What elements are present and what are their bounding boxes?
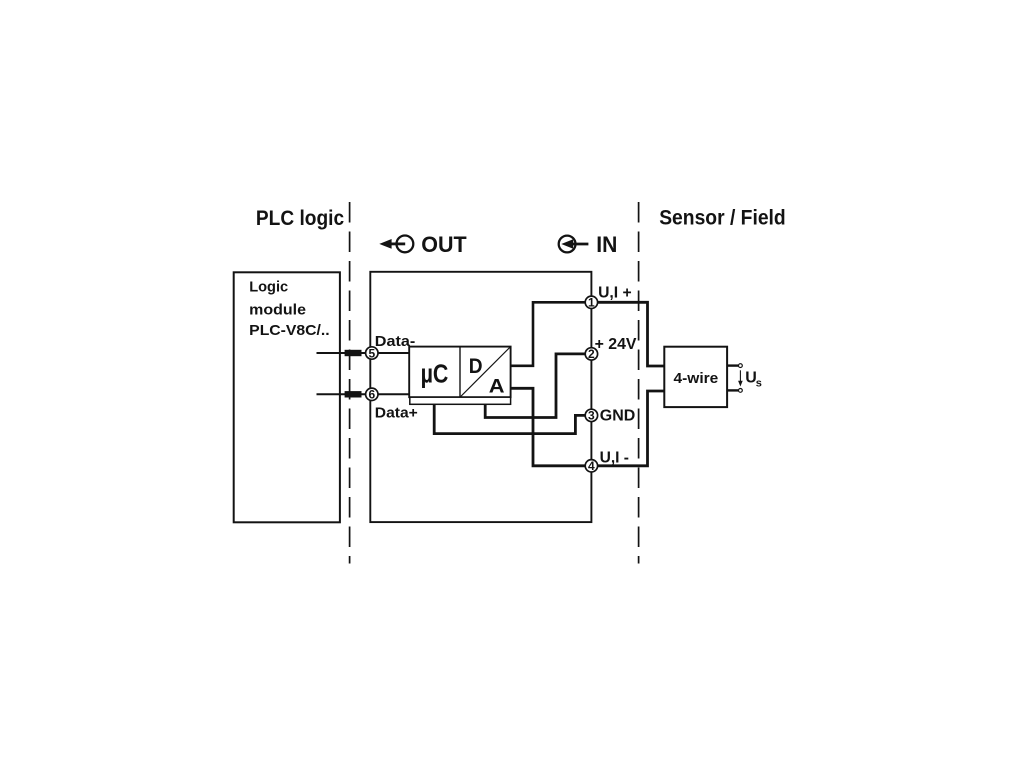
supply voltage arrow: [739, 370, 741, 381]
svg-text:s: s: [756, 377, 762, 389]
svg-text:Data+: Data+: [375, 404, 418, 421]
separator: Sensor/Field boundary (dashed line): [638, 202, 640, 564]
wire: Data+ from logic module to terminal 6: [317, 393, 410, 395]
symbol: IN direction arrow: [559, 236, 589, 253]
svg-text:Sensor / Field: Sensor / Field: [659, 207, 786, 230]
svg-text:module: module: [249, 301, 306, 318]
svg-text:6: 6: [368, 388, 375, 402]
supply stub upper: [727, 364, 738, 366]
svg-text:PLC logic: PLC logic: [256, 207, 344, 230]
svg-text:A: A: [489, 375, 505, 397]
supply stub lower: [727, 389, 738, 391]
terminal 4: [585, 460, 597, 472]
sensor: 4-wire transducer box: [664, 347, 727, 407]
wire: DAC output to terminal 4: [511, 388, 592, 466]
svg-text:4-wire: 4-wire: [674, 370, 719, 387]
wire: DAC output to terminal 1: [511, 302, 592, 366]
converter block bottom rail: [410, 397, 511, 404]
svg-text:PLC-V8C/..: PLC-V8C/..: [249, 322, 330, 339]
svg-text:+ 24V: + 24V: [595, 336, 637, 353]
device outline box: [370, 272, 591, 522]
supply terminal lower (open circle): [739, 389, 743, 393]
separator: PLC logic boundary (dashed line): [349, 202, 351, 564]
terminal 6: [366, 388, 378, 400]
terminal 1: [585, 296, 597, 308]
svg-text:D: D: [469, 354, 483, 378]
supply terminal upper (open circle): [739, 364, 743, 368]
svg-text:4: 4: [588, 459, 595, 473]
svg-text:3: 3: [588, 409, 595, 423]
connector bar on Data- wire: [345, 350, 362, 356]
svg-text:µC: µC: [421, 360, 449, 388]
divider between µC and D/A cells: [459, 347, 461, 398]
wire: terminal 1 to 4-wire sensor: [591, 302, 664, 366]
converter block (microcontroller + DAC): [409, 347, 510, 398]
terminal 5: [366, 347, 378, 359]
svg-text:OUT: OUT: [421, 232, 467, 257]
svg-text:5: 5: [368, 346, 375, 360]
connector bar on Data+ wire: [345, 391, 362, 397]
wire: +24V from terminal 2 to converter bottom rail: [485, 354, 591, 418]
svg-text:1: 1: [588, 296, 595, 310]
svg-text:GND: GND: [600, 408, 636, 425]
D/A diagonal: [460, 347, 510, 397]
wire: terminal 4 to 4-wire sensor: [591, 391, 664, 466]
wire: GND from terminal 3 to converter bottom rail: [434, 404, 591, 433]
terminal 2: [585, 348, 597, 360]
svg-text:IN: IN: [596, 232, 617, 257]
logic module box: [234, 272, 340, 522]
wire: Data- from logic module to terminal 5: [317, 352, 410, 354]
svg-text:Logic: Logic: [249, 278, 288, 295]
terminal 3: [585, 409, 597, 421]
svg-text:U,I -: U,I -: [600, 450, 629, 467]
svg-text:U,I +: U,I +: [598, 284, 632, 301]
symbol: OUT direction arrow: [379, 236, 413, 253]
